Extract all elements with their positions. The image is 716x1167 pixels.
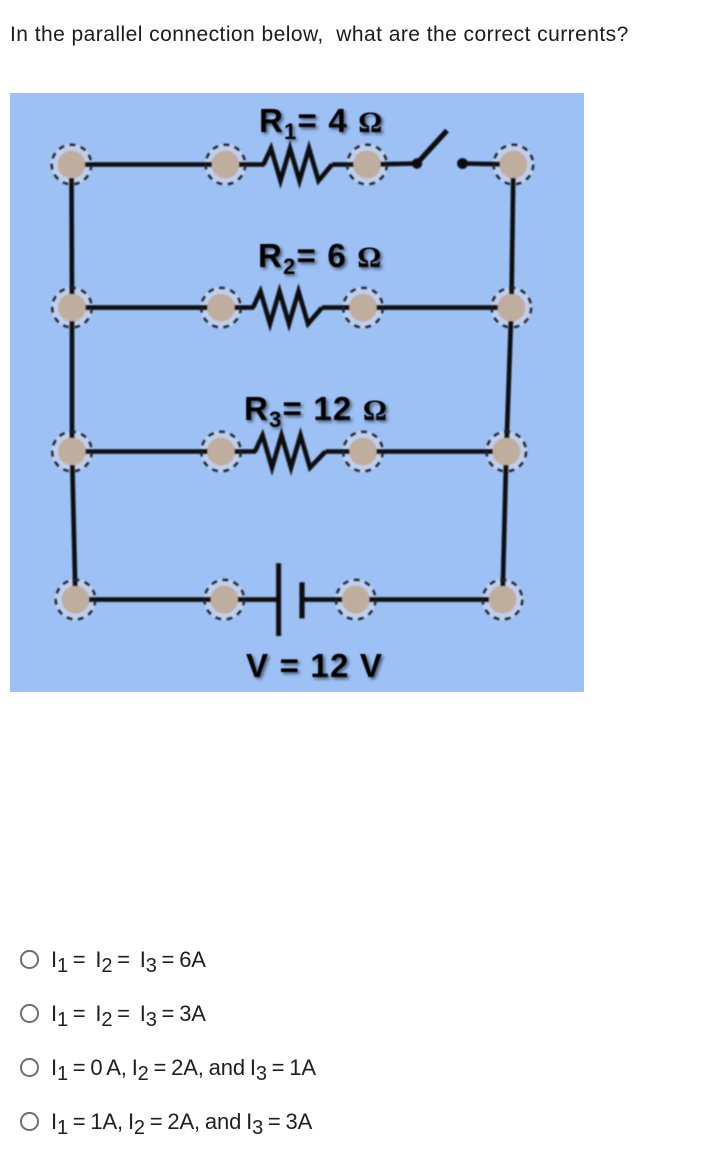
wire row2 node3 to node4	[363, 305, 511, 310]
svg-text:R2= 6 Ω: R2= 6 Ω	[258, 237, 382, 279]
node row2 col1	[52, 288, 92, 328]
answer option 3 radio	[21, 1055, 701, 1079]
node row1 col3	[347, 145, 387, 185]
svg-text:R3= 12 Ω: R3= 12 Ω	[244, 390, 388, 432]
wire right branch row3-row4	[503, 452, 507, 600]
node row2 col3	[343, 288, 383, 328]
node halo row4 col2	[204, 579, 246, 621]
wire battery negative plate to row4 node3	[304, 597, 356, 602]
wire row4 node2 to battery positive plate	[224, 597, 276, 602]
node row2 col2	[201, 288, 241, 328]
node row4 col2	[205, 580, 245, 620]
wire row1 node3 to switch pivot	[367, 164, 417, 165]
node row3 col3	[343, 432, 383, 472]
battery V1 negative plate (short)	[299, 582, 304, 618]
resistor R2 zigzag	[253, 291, 322, 323]
node row1 col2	[206, 145, 246, 185]
title question text	[10, 23, 629, 47]
wire row1 resistor lead left	[225, 162, 264, 167]
node halo row2 col3	[342, 287, 384, 329]
node halo row2 col1	[51, 287, 93, 329]
wire left branch row3-row4	[72, 452, 76, 600]
wire row3 resistor lead left	[221, 449, 256, 454]
answer option 2 radio	[21, 1001, 701, 1025]
resistor R1 zigzag	[264, 148, 333, 180]
node halo row1 col2	[205, 144, 247, 186]
node halo row1 col3	[346, 144, 388, 186]
wire left branch row1-row2	[69, 165, 74, 308]
node row2 col4	[492, 288, 532, 328]
wire row1 resistor lead right	[332, 162, 367, 167]
node row4 col1	[56, 580, 96, 620]
answer option 1 radio	[21, 947, 701, 971]
wire row2 resistor lead right	[322, 305, 363, 310]
node row4 col3	[336, 580, 376, 620]
node row3 col1	[52, 432, 92, 472]
wire left branch row2-row3	[70, 308, 75, 452]
node halo row3 col4	[486, 431, 528, 473]
svg-text:R1= 4 Ω: R1= 4 Ω	[259, 102, 383, 144]
wire right branch row1-row2	[511, 165, 513, 308]
node row3 col2	[201, 432, 241, 472]
node row4 col4	[483, 580, 523, 620]
panel background	[10, 93, 584, 692]
node halo row4 col1	[55, 579, 97, 621]
switch S1 pivot junction dot	[412, 158, 422, 168]
node halo row3 col1	[51, 431, 93, 473]
wire switch contact to row1 node4	[463, 164, 514, 165]
switch S1 fixed contact dot	[457, 158, 468, 169]
node row1 col4	[494, 145, 534, 185]
circuit panel	[10, 93, 584, 692]
node halo row4 col4	[482, 579, 524, 621]
svg-text:V = 12 V: V = 12 V	[246, 647, 383, 684]
wire row4 node3 to node4	[356, 597, 503, 602]
wire row3 node1 to node2	[72, 449, 221, 454]
node halo row1 col1	[51, 144, 93, 186]
node halo row3 col3	[342, 431, 384, 473]
node halo row1 col4	[493, 144, 535, 186]
wire row3 node3 to node4	[363, 449, 506, 454]
node halo row3 col2	[200, 431, 242, 473]
wire row2 resistor lead left	[221, 305, 254, 310]
resistor R3 zigzag	[255, 435, 326, 467]
node halo row4 col3	[335, 579, 377, 621]
wire row4 node1 to node2	[76, 597, 225, 602]
answer option 4 radio	[21, 1109, 701, 1133]
node row3 col4	[487, 432, 527, 472]
node halo row2 col4	[491, 287, 533, 329]
wire row3 resistor lead right	[326, 449, 364, 454]
node row1 col1	[52, 145, 92, 185]
switch S1 open lever	[416, 131, 448, 166]
battery V1 positive plate (long)	[276, 563, 281, 636]
node halo row2 col2	[200, 287, 242, 329]
wire right branch row2-row3	[506, 308, 511, 452]
wire row1 node1 to node2	[72, 162, 226, 167]
wire row2 node1 to node2	[72, 305, 221, 310]
